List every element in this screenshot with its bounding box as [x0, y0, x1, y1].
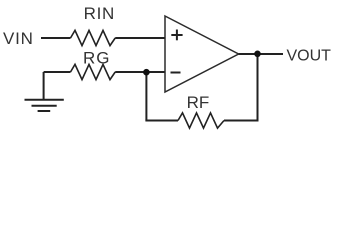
wire VIN to RIN — [41, 37, 71, 39]
wire RG to op-amp inverting input — [115, 71, 165, 73]
wire op-amp output — [239, 53, 283, 55]
wire RIN to op-amp non-inverting input — [115, 37, 165, 39]
wire inverting node down to RF row — [145, 72, 147, 121]
svg-text:RG: RG — [83, 49, 111, 68]
wire RF row left segment — [145, 120, 178, 122]
wire RF row right segment — [224, 120, 259, 122]
svg-text:VOUT: VOUT — [287, 48, 332, 65]
resistor R3 RF — [178, 93, 224, 128]
resistor R1 RIN — [71, 4, 116, 46]
resistor R2 RG — [71, 49, 116, 80]
wire feedback up to output node — [257, 54, 259, 122]
node junction dot at inverting input — [143, 69, 150, 76]
svg-text:RIN: RIN — [84, 4, 115, 23]
node output junction dot — [254, 51, 261, 58]
op-amp inverting input minus sign — [171, 72, 181, 74]
wire ground to RG — [44, 71, 71, 73]
op-amp U1 — [165, 16, 239, 92]
op-amp non-inverting input plus sign — [171, 30, 182, 41]
svg-text:RF: RF — [187, 93, 210, 112]
svg-text:VIN: VIN — [3, 29, 34, 48]
ground — [25, 72, 64, 111]
